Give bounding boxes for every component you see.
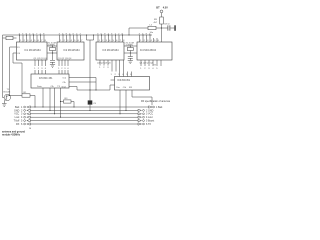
connector right terminals	[138, 106, 155, 125]
svg-text:R9: R9	[154, 19, 158, 21]
svg-text:Q1 Q2 Q3 Q4: Q1 Q2 Q3 Q4	[58, 58, 72, 60]
svg-text:Q1 Q2 Q3 Q4: Q1 Q2 Q3 Q4	[97, 63, 111, 65]
svg-text:2: 2	[64, 40, 66, 42]
svg-text:6: 6	[130, 74, 132, 76]
crystal cluster X2 between IC3 IC4	[124, 46, 137, 57]
svg-text:1: 1	[140, 40, 142, 42]
svg-text:3: 3	[147, 40, 149, 42]
svg-text:7: 7	[41, 40, 43, 42]
svg-text:8: 8	[45, 40, 47, 42]
svg-text:6: 6	[78, 40, 80, 42]
svg-text:Clk: Clk	[51, 86, 55, 88]
svg-text:1: 1	[20, 40, 22, 42]
svg-text:Clk: Clk	[123, 87, 127, 89]
crystal Y1 4MHz	[3, 36, 17, 39]
capacitor C5 electrolytic	[89, 90, 91, 110]
svg-text:6: 6	[21, 123, 23, 126]
wire IC5 drop3	[54, 88, 56, 114]
capacitor C2	[128, 57, 133, 61]
inductor L2 RFC	[129, 26, 162, 35]
svg-text:1: 1	[140, 68, 142, 70]
svg-text:2: 2	[144, 40, 146, 42]
svg-text:Q1 Q2 Q3 Q4: Q1 Q2 Q3 Q4	[140, 63, 154, 65]
IC1 bottom pins	[35, 60, 46, 74]
svg-text:3: 3	[118, 74, 120, 76]
capacitor C5 body	[88, 100, 93, 104]
capacitor C8	[162, 25, 175, 30]
node center drop between IC2 IC3	[87, 35, 94, 90]
svg-text:5: 5	[154, 40, 156, 42]
svg-text:2: 2	[61, 68, 63, 70]
svg-text:IC3 MC145164: IC3 MC145164	[103, 49, 120, 52]
svg-text:IC6 80C451: IC6 80C451	[117, 79, 130, 82]
svg-text:C8 1n: C8 1n	[164, 24, 171, 26]
svg-text:5: 5	[126, 74, 128, 76]
svg-text:6: 6	[116, 40, 118, 42]
svg-text:BT: BT	[156, 6, 160, 9]
IC1 top pins	[20, 35, 45, 42]
svg-text:2: 2	[115, 74, 117, 76]
svg-text:5V: 5V	[154, 65, 157, 67]
svg-text:1: 1	[111, 74, 113, 76]
wire IC5 drop4	[60, 88, 62, 117]
svg-text:RX: RX	[129, 87, 133, 89]
ground	[2, 104, 7, 107]
wire IC6 drop3	[132, 90, 152, 105]
svg-text:3: 3	[27, 40, 29, 42]
connector left terminals	[24, 106, 31, 125]
svg-text:1: 1	[99, 67, 101, 69]
svg-text:3: 3	[148, 68, 150, 70]
svg-text:Clk: Clk	[63, 82, 67, 84]
resistor R9	[160, 17, 164, 42]
IC6 80C451	[115, 77, 150, 91]
wire row 5	[31, 120, 139, 122]
svg-text:IC4 MC145164: IC4 MC145164	[140, 49, 157, 52]
svg-text:4: 4	[67, 68, 69, 70]
svg-text:IC2 MC145164: IC2 MC145164	[64, 49, 81, 52]
svg-text:5: 5	[156, 68, 158, 70]
wire IC6 drop1	[119, 90, 121, 114]
crystal cluster X1 between IC1 IC2	[47, 46, 57, 60]
legend right labels	[141, 100, 171, 126]
svg-text:RX: RX	[16, 123, 20, 126]
svg-text:OS: OS	[17, 53, 20, 55]
svg-text:2: 2	[38, 68, 40, 70]
wire IC1 left pin OSC	[10, 47, 17, 96]
caption	[2, 128, 31, 137]
svg-text:4k7: 4k7	[154, 22, 158, 24]
svg-text:1: 1	[60, 40, 62, 42]
svg-text:IC5 80C 451: IC5 80C 451	[39, 77, 53, 80]
resistor R1	[10, 94, 35, 107]
svg-text:7: 7	[81, 40, 83, 42]
wire row 3	[31, 113, 139, 115]
wire IC5 pin out2	[69, 81, 96, 83]
svg-text:2: 2	[144, 68, 146, 70]
IC1 MC145164	[17, 42, 48, 60]
transistor T1	[4, 94, 10, 103]
svg-text:RF specification of antenna: RF specification of antenna	[141, 100, 171, 103]
svg-text:3: 3	[107, 67, 109, 69]
svg-text:3: 3	[67, 40, 69, 42]
wire IC5 pin out3	[69, 87, 77, 91]
wire row 2	[31, 109, 139, 111]
svg-text:2: 2	[24, 40, 26, 42]
svg-text:2: 2	[103, 67, 105, 69]
labels	[25, 49, 157, 82]
wire left rail	[3, 35, 5, 98]
svg-text:FV: FV	[17, 47, 20, 49]
svg-text:1: 1	[58, 68, 60, 70]
svg-text:module 433MHz: module 433MHz	[2, 134, 21, 137]
svg-text:Out: Out	[63, 76, 67, 79]
svg-text:4: 4	[151, 40, 153, 42]
svg-text:5: 5	[34, 40, 36, 42]
svg-text:3: 3	[41, 68, 43, 70]
wire IC5 tx drop	[49, 88, 51, 110]
wire IC6 left pin	[111, 79, 115, 81]
IC2 bottom pins	[59, 60, 68, 74]
supply arrow BT	[160, 10, 163, 17]
IC3 MC145164	[96, 42, 124, 60]
IC4 top pins	[140, 35, 158, 42]
svg-text:6: 6	[38, 40, 40, 42]
connector left labels	[14, 106, 23, 126]
wire IC6 drop2	[125, 90, 127, 110]
IC4 MC145164	[137, 42, 172, 60]
svg-text:4: 4	[152, 68, 154, 70]
svg-text:M: M	[29, 128, 31, 130]
wire main bus	[3, 34, 153, 36]
svg-text:6 TX: 6 TX	[146, 123, 151, 126]
svg-text:4.0MHz: 4.0MHz	[126, 45, 134, 47]
svg-text:3: 3	[106, 40, 108, 42]
wire IC5 pin out1	[69, 78, 96, 91]
svg-text:6: 6	[158, 40, 160, 42]
wire row 4	[31, 116, 139, 118]
wire IC1 left pin to IC5	[13, 53, 22, 94]
ground	[50, 65, 55, 68]
svg-text:2: 2	[102, 40, 104, 42]
wire data link to IC6	[77, 85, 115, 90]
IC4 bottom pins	[141, 60, 161, 66]
antenna terminal	[174, 25, 176, 31]
svg-text:1 Batt: 1 Batt	[156, 106, 163, 109]
svg-text:TX: TX	[57, 86, 60, 88]
svg-text:BC546: BC546	[4, 91, 11, 93]
IC3 top pins	[98, 35, 123, 42]
IC2 MC145164	[57, 42, 84, 60]
svg-text:4: 4	[71, 40, 73, 42]
svg-text:Data: Data	[37, 85, 42, 88]
IC2 top pins	[60, 35, 81, 42]
svg-text:3: 3	[64, 68, 66, 70]
svg-text:5: 5	[113, 40, 115, 42]
svg-text:4.5V: 4.5V	[163, 6, 168, 9]
svg-text:10u: 10u	[150, 32, 154, 34]
IC5 80C451	[31, 74, 69, 88]
wire IC5 clk drop	[42, 88, 44, 107]
wire row 1	[31, 106, 149, 108]
svg-text:4: 4	[45, 68, 47, 70]
wire row 6	[31, 123, 139, 125]
svg-text:Q1 Q2 Q3 Q4: Q1 Q2 Q3 Q4	[34, 58, 48, 60]
svg-text:Din: Din	[117, 87, 121, 89]
svg-text:IC1 MC145164: IC1 MC145164	[25, 49, 42, 52]
svg-text:4: 4	[122, 74, 124, 76]
svg-text:1: 1	[34, 68, 36, 70]
svg-text:7: 7	[120, 40, 122, 42]
svg-text:C5: C5	[93, 103, 97, 105]
svg-text:4: 4	[109, 40, 111, 42]
capacitor C1	[50, 61, 55, 65]
svg-text:1: 1	[99, 40, 101, 42]
svg-text:5: 5	[74, 40, 76, 42]
IC3 bottom pins	[100, 60, 132, 77]
junction dots	[9, 27, 162, 117]
ground	[128, 61, 133, 64]
resistor R3	[61, 100, 75, 107]
svg-text:4.0MHz: 4.0MHz	[48, 45, 56, 47]
svg-text:4: 4	[31, 40, 33, 42]
